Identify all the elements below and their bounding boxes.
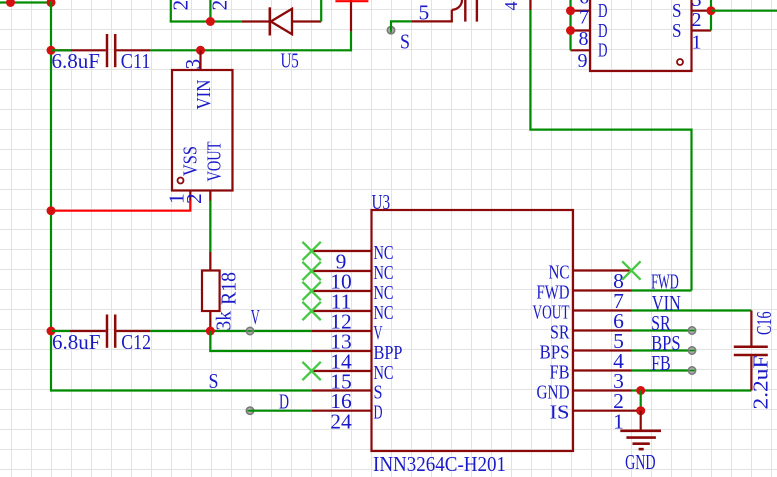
wire	[320, 0, 322, 22]
svg-text:GND: GND	[537, 382, 570, 404]
svg-text:V: V	[251, 305, 260, 329]
wire	[170, 20, 242, 22]
no-connect flag	[302, 302, 320, 320]
svg-text:NC: NC	[374, 242, 394, 264]
pin 1	[692, 29, 712, 31]
svg-text:2: 2	[692, 9, 702, 31]
wire	[690, 129, 692, 291]
svg-text:VOUT: VOUT	[533, 302, 570, 324]
svg-text:5: 5	[419, 1, 430, 25]
junction	[196, 46, 205, 55]
wire	[632, 329, 693, 331]
junction	[636, 406, 645, 415]
wire	[51, 389, 312, 391]
svg-text:C16: C16	[752, 312, 776, 336]
no-connect flag	[302, 362, 320, 380]
pin 12	[312, 310, 372, 312]
pin 15	[312, 370, 372, 372]
junction	[47, 327, 56, 336]
wire	[150, 49, 351, 51]
pin 1	[573, 410, 638, 412]
ground	[640, 411, 642, 431]
pin 6	[573, 309, 632, 311]
pin 5	[573, 329, 632, 331]
pin 8	[573, 269, 632, 271]
svg-text:BPS: BPS	[540, 342, 570, 364]
wire	[569, 0, 571, 50]
pin 3	[199, 50, 201, 70]
pin 2	[573, 389, 632, 391]
net port FB	[688, 367, 695, 374]
svg-text:3k: 3k	[212, 311, 236, 331]
pin 5 wire	[412, 10, 452, 22]
polarity circle	[178, 178, 184, 184]
svg-text:D: D	[598, 40, 608, 62]
pin 7	[571, 10, 591, 12]
pin 9	[571, 49, 591, 51]
pin 2	[209, 191, 211, 201]
wire	[711, 10, 777, 12]
svg-text:C12: C12	[121, 330, 151, 354]
svg-text:FB: FB	[550, 362, 570, 384]
pin 3	[573, 369, 632, 371]
polarity circle	[677, 59, 683, 65]
svg-text:NC: NC	[374, 262, 394, 284]
svg-text:R18: R18	[217, 272, 241, 305]
svg-text:7: 7	[579, 7, 589, 29]
wire	[51, 201, 190, 211]
pin 16	[312, 389, 372, 391]
svg-text:2: 2	[208, 0, 232, 11]
svg-text:D: D	[598, 0, 608, 22]
pin 2	[692, 10, 712, 12]
svg-text:BPP: BPP	[374, 342, 403, 364]
wire	[209, 201, 211, 253]
svg-text:S: S	[374, 382, 383, 404]
svg-text:6.8uF: 6.8uF	[52, 330, 101, 354]
pin 9	[312, 250, 372, 252]
capacitor arc	[452, 0, 462, 10]
svg-text:9: 9	[578, 50, 588, 72]
svg-text:D: D	[374, 402, 383, 424]
svg-text:3: 3	[181, 59, 205, 70]
pin 14	[312, 350, 372, 352]
net port V	[246, 327, 253, 334]
svg-text:NC: NC	[549, 262, 570, 284]
junction	[6, 0, 15, 7]
pin 1	[189, 191, 191, 201]
svg-text:FB: FB	[651, 351, 671, 375]
wire	[391, 21, 412, 30]
svg-text:NC: NC	[374, 282, 394, 304]
svg-text:D: D	[279, 390, 289, 414]
junction	[707, 6, 716, 15]
wire	[250, 410, 312, 412]
svg-text:D: D	[598, 20, 608, 42]
wire	[170, 0, 172, 22]
svg-text:SR: SR	[550, 322, 570, 344]
junction	[206, 17, 215, 26]
pin 24	[312, 410, 372, 412]
junction	[566, 6, 575, 15]
svg-text:FWD: FWD	[537, 282, 570, 304]
capacitor plate	[464, 0, 466, 22]
wire	[640, 391, 642, 411]
svg-text:2.2uF: 2.2uF	[749, 356, 773, 410]
wire	[335, 0, 368, 2]
no-connect flag	[302, 262, 320, 280]
wire	[710, 0, 712, 31]
net port SR	[688, 327, 695, 334]
no-connect flag	[302, 242, 320, 260]
junction	[47, 0, 56, 7]
pin 13	[312, 330, 372, 332]
pin 7	[573, 289, 632, 291]
svg-text:U3: U3	[372, 190, 391, 214]
svg-text:INN3264C-H201: INN3264C-H201	[373, 452, 506, 476]
svg-text:1: 1	[692, 31, 702, 53]
diode	[242, 20, 270, 22]
svg-text:GND: GND	[625, 450, 656, 474]
net port D	[246, 407, 253, 414]
op-amp U5 body	[172, 70, 233, 191]
svg-text:6.8uF: 6.8uF	[52, 49, 101, 73]
svg-text:2: 2	[169, 0, 193, 11]
wire	[210, 331, 311, 351]
svg-text:NC: NC	[374, 302, 394, 324]
junction	[47, 46, 56, 55]
junction	[636, 386, 645, 395]
svg-text:S: S	[672, 0, 682, 22]
wire	[530, 10, 691, 130]
wire	[150, 330, 311, 332]
wire	[0, 1, 51, 3]
svg-text:IS: IS	[550, 402, 570, 424]
svg-text:2: 2	[182, 193, 206, 204]
svg-text:VOUT: VOUT	[204, 142, 226, 182]
no-connect flag	[622, 261, 640, 279]
wire	[632, 389, 752, 391]
no-connect flag	[302, 282, 320, 300]
capacitor C12	[51, 330, 70, 332]
pin 4	[573, 349, 632, 351]
wire	[632, 369, 693, 371]
capacitor C16	[750, 311, 752, 346]
wire	[50, 1, 52, 391]
net port S	[387, 27, 394, 34]
svg-text:C11: C11	[121, 49, 151, 73]
wire	[350, 0, 352, 31]
svg-text:U5: U5	[281, 49, 299, 73]
pin 11	[312, 290, 372, 292]
svg-text:8: 8	[579, 28, 589, 50]
net port BPS	[688, 347, 695, 354]
wire	[209, 0, 211, 22]
svg-text:VSS: VSS	[180, 146, 202, 176]
svg-text:24: 24	[330, 409, 352, 433]
junction	[47, 206, 56, 215]
pin 4 lead	[529, 0, 531, 10]
junction	[566, 26, 575, 35]
capacitor C11	[51, 49, 106, 51]
capacitor plate	[476, 0, 478, 22]
svg-text:V: V	[374, 322, 383, 344]
pin 8	[571, 29, 591, 31]
wire	[632, 309, 752, 311]
svg-text:S: S	[672, 20, 682, 42]
wire	[632, 289, 692, 291]
resistor R18	[209, 252, 211, 271]
pin 10	[312, 270, 372, 272]
svg-text:VIN: VIN	[193, 80, 215, 110]
transformer T1 body	[590, 0, 692, 71]
IC U3 body	[372, 210, 574, 451]
svg-text:S: S	[400, 30, 410, 54]
wire	[350, 31, 352, 51]
junction	[206, 327, 215, 336]
svg-text:S: S	[209, 369, 219, 393]
svg-text:4: 4	[501, 2, 521, 11]
wire	[632, 349, 693, 351]
